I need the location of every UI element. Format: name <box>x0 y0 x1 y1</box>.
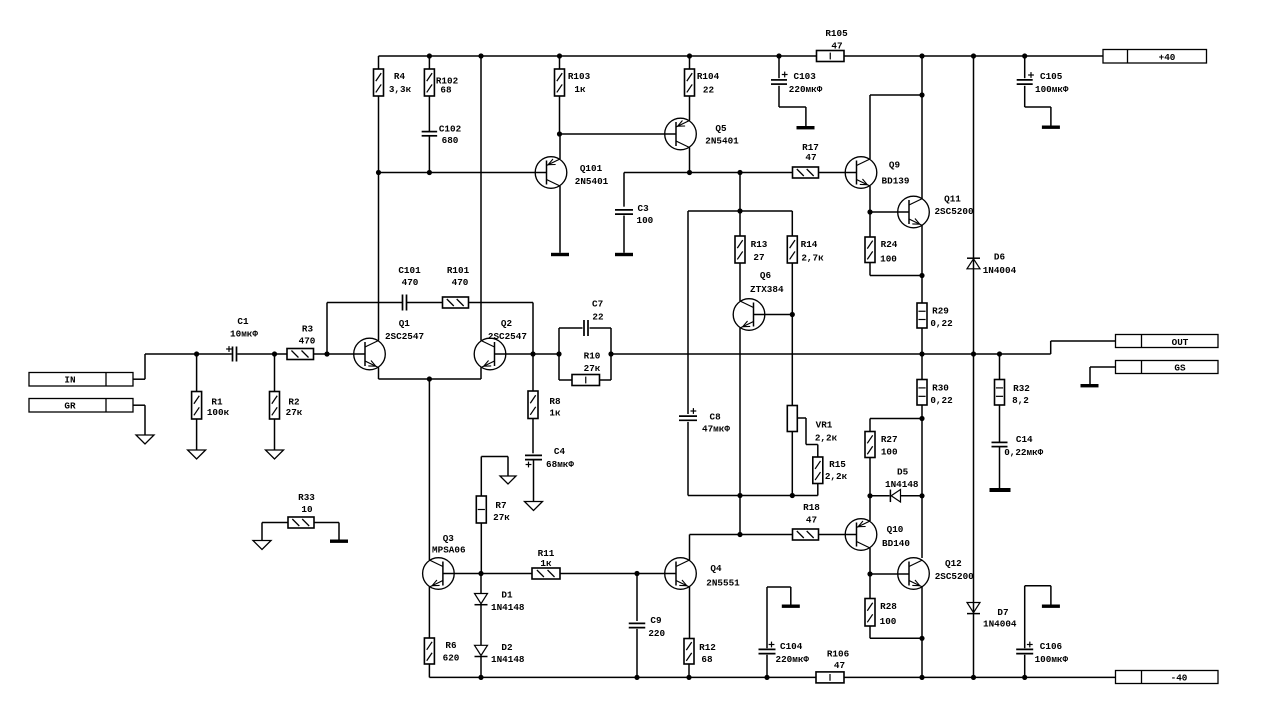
wire fb top right <box>590 327 612 329</box>
svg-text:C4: C4 <box>554 446 566 457</box>
wire Q2 base <box>495 353 534 355</box>
svg-text:C106: C106 <box>1040 641 1063 652</box>
svg-text:1к: 1к <box>540 558 552 569</box>
svg-text:R6: R6 <box>445 640 457 651</box>
wire Q1 collector <box>378 173 380 341</box>
capacitor C14 <box>992 434 1044 458</box>
wire C1 to R3 <box>237 353 287 355</box>
transistor Q9 <box>845 157 910 189</box>
wire D5 to Q12 collector <box>901 495 923 497</box>
svg-text:220мкФ: 220мкФ <box>789 84 823 95</box>
wire C105 to ground <box>1025 86 1051 126</box>
svg-text:2,2к: 2,2к <box>815 433 838 444</box>
node Q12 collector <box>919 493 924 498</box>
svg-text:68мкФ: 68мкФ <box>546 459 574 470</box>
diode D1 <box>475 574 525 614</box>
wire to Q5 base <box>560 133 677 135</box>
svg-text:Q2: Q2 <box>501 318 513 329</box>
wire R33 left <box>262 523 288 541</box>
node tail <box>427 376 432 381</box>
svg-text:27к: 27к <box>286 407 303 418</box>
node VAS-R13 <box>737 170 742 175</box>
wire bias left top <box>687 211 689 414</box>
svg-text:R24: R24 <box>881 239 898 250</box>
wire R32 to C14 <box>999 405 1001 442</box>
wire -40 rail left segment <box>429 676 816 678</box>
svg-text:100: 100 <box>881 446 898 457</box>
wire R28 jog <box>870 626 922 638</box>
svg-text:VR1: VR1 <box>816 420 833 431</box>
ground GR <box>136 435 154 444</box>
resistor R106 <box>816 649 850 683</box>
wire Q2 collector riser <box>480 56 482 341</box>
wire R1 to ground <box>196 419 198 450</box>
node Q1 base <box>324 351 329 356</box>
wire Q2 base to fb network <box>533 353 559 355</box>
wire base line to R11 <box>481 573 532 575</box>
wire Q12 emitter <box>921 587 923 677</box>
svg-text:BD139: BD139 <box>882 176 910 187</box>
svg-text:D7: D7 <box>997 607 1008 618</box>
svg-text:R2: R2 <box>288 397 300 408</box>
wire C104 ground jog <box>767 587 791 605</box>
svg-text:680: 680 <box>442 135 459 146</box>
resistor R103 <box>555 56 591 96</box>
wire D7 column <box>973 354 975 677</box>
wire C4 to ground <box>533 460 535 502</box>
ground C4 <box>525 502 543 511</box>
node Q12 rail <box>919 675 924 680</box>
wire Q5 collector <box>689 148 691 173</box>
resistor R32 <box>995 354 1031 406</box>
wire R7 jog <box>481 457 508 497</box>
svg-text:R7: R7 <box>495 500 506 511</box>
node Q12 base node <box>867 571 872 576</box>
node fb right <box>608 351 613 356</box>
resistor R8 <box>528 354 561 419</box>
capacitor C7 <box>584 299 604 337</box>
wire R103 down <box>559 96 561 134</box>
node Q2 base <box>530 351 535 356</box>
connector GR <box>29 399 133 413</box>
wire bias left bottom <box>687 422 689 496</box>
node rail-R102 <box>427 53 432 58</box>
wire IN to main line <box>133 354 145 379</box>
svg-text:C103: C103 <box>794 71 817 82</box>
capacitor C102 <box>422 124 462 147</box>
wire R15 bottom <box>817 484 819 496</box>
capacitor C103 <box>771 56 823 95</box>
wire Q4 collector <box>689 535 691 561</box>
wire Q9 collector <box>870 95 922 159</box>
node bias bottom Q6e <box>737 493 742 498</box>
wire Q4 emitter <box>689 587 691 639</box>
svg-text:470: 470 <box>299 336 316 347</box>
transistor Q101 <box>535 157 608 189</box>
svg-text:220: 220 <box>648 628 665 639</box>
wire R102 to C102 <box>428 96 430 131</box>
wire fb right vertical <box>610 328 612 380</box>
svg-text:R105: R105 <box>825 28 848 39</box>
wire +40 rail right segment <box>844 55 1103 57</box>
node C106 rail <box>1022 675 1027 680</box>
svg-text:27к: 27к <box>584 363 601 374</box>
svg-text:R33: R33 <box>298 492 315 503</box>
svg-text:0,22: 0,22 <box>930 318 953 329</box>
svg-text:620: 620 <box>443 653 460 664</box>
wire C102 down <box>428 136 430 172</box>
svg-text:1N4148: 1N4148 <box>491 602 525 613</box>
svg-text:R27: R27 <box>881 434 898 445</box>
svg-text:220мкФ: 220мкФ <box>776 654 810 665</box>
svg-text:0,22: 0,22 <box>930 395 953 406</box>
wire Q11 base <box>870 211 909 213</box>
wire R2 to ground <box>274 419 276 450</box>
svg-text:R3: R3 <box>302 324 314 335</box>
wire R18 to Q10 <box>819 534 857 536</box>
svg-text:C3: C3 <box>638 203 650 214</box>
resistor R29 <box>917 303 953 329</box>
svg-text:C8: C8 <box>710 412 722 423</box>
svg-text:Q12: Q12 <box>945 558 962 569</box>
resistor R11 <box>532 548 560 579</box>
svg-text:2SC2547: 2SC2547 <box>488 331 527 342</box>
svg-text:R30: R30 <box>932 383 949 394</box>
svg-text:R1: R1 <box>211 397 223 408</box>
svg-text:10мкФ: 10мкФ <box>230 329 258 340</box>
svg-text:Q5: Q5 <box>715 123 727 134</box>
wire OUT connector lead <box>1051 341 1116 354</box>
svg-text:100: 100 <box>637 215 654 226</box>
svg-text:47: 47 <box>834 660 845 671</box>
wire GS to ground <box>1090 367 1116 384</box>
wire VAS line <box>624 172 793 174</box>
node Q9 collector <box>919 92 924 97</box>
wire R33 right <box>314 523 339 540</box>
wire fb left vertical <box>558 328 560 380</box>
resistor R7 <box>476 496 510 523</box>
diode D2 <box>475 642 525 665</box>
wire D2 to rail <box>480 657 482 678</box>
svg-text:Q3: Q3 <box>443 533 455 544</box>
svg-text:-40: -40 <box>1171 673 1188 684</box>
svg-text:Q1: Q1 <box>399 318 411 329</box>
diode D5 <box>870 467 919 503</box>
connector OUT <box>1116 335 1219 349</box>
svg-text:27: 27 <box>753 252 764 263</box>
transistor Q6 <box>733 270 784 330</box>
svg-text:R14: R14 <box>801 239 818 250</box>
svg-text:R8: R8 <box>549 396 561 407</box>
svg-text:2N5401: 2N5401 <box>575 176 609 187</box>
wire C103 to ground <box>779 86 806 126</box>
node rail-R103 <box>557 53 562 58</box>
svg-text:22: 22 <box>592 312 604 323</box>
wire main line to C1 <box>145 353 232 355</box>
wire fb bottom right <box>600 379 612 381</box>
transistor Q12 <box>898 558 974 590</box>
node rail-D6 <box>971 53 976 58</box>
svg-text:D1: D1 <box>501 590 513 601</box>
svg-text:2SC2547: 2SC2547 <box>385 331 424 342</box>
wire R101 to Q2 base node <box>469 303 534 355</box>
wire D6 column <box>973 56 975 354</box>
svg-text:GS: GS <box>1174 363 1186 374</box>
svg-text:Q11: Q11 <box>944 194 961 205</box>
svg-text:100мкФ: 100мкФ <box>1035 84 1069 95</box>
transistor Q1 <box>354 318 424 370</box>
node OUT-R32 <box>997 351 1002 356</box>
ground Q101 <box>551 253 569 256</box>
wire to C101 <box>327 302 402 304</box>
wire R104 to Q5 emitter <box>689 96 691 121</box>
svg-text:68: 68 <box>701 654 713 665</box>
node fb left <box>556 351 561 356</box>
resistor R28 <box>865 574 897 627</box>
svg-text:47мкФ: 47мкФ <box>702 424 730 435</box>
wire Q11 collector riser <box>921 56 923 199</box>
ground C106 <box>1042 605 1060 608</box>
svg-text:C104: C104 <box>780 641 803 652</box>
wire D1-D2 <box>480 605 482 646</box>
svg-text:C101: C101 <box>398 265 421 276</box>
svg-text:C14: C14 <box>1016 434 1033 445</box>
ground GS <box>1081 384 1099 387</box>
wire R24 jog <box>870 263 922 276</box>
wire Q2 emitter <box>480 368 482 380</box>
node drive bottom <box>737 532 742 537</box>
resistor R1 <box>192 354 230 419</box>
wire Q1 emitter <box>378 368 380 380</box>
resistor R10 <box>572 351 601 386</box>
wire R4 to VAS line <box>378 96 380 173</box>
wire OUT line <box>611 353 1051 355</box>
wire R8 to C4 <box>532 419 534 454</box>
node C1-R2 <box>272 351 277 356</box>
svg-text:2SC5200: 2SC5200 <box>935 571 974 582</box>
svg-text:100мкФ: 100мкФ <box>1035 654 1069 665</box>
node D7 rail <box>971 675 976 680</box>
svg-text:100к: 100к <box>207 407 230 418</box>
capacitor C101 <box>398 265 421 311</box>
node OUT-R29 <box>919 351 924 356</box>
node D2 rail <box>478 675 483 680</box>
ground R7 <box>500 476 516 484</box>
wire R27 jog <box>870 419 922 432</box>
svg-text:100: 100 <box>880 254 897 265</box>
capacitor C1 <box>226 316 258 362</box>
diode D6 <box>967 252 1017 277</box>
wire Q4 collector line <box>690 534 793 536</box>
capacitor C104 <box>759 587 810 665</box>
svg-text:R104: R104 <box>697 71 720 82</box>
svg-text:2,2к: 2,2к <box>825 471 848 482</box>
svg-text:D5: D5 <box>897 467 909 478</box>
wire R14 node to VR1 <box>791 315 793 406</box>
capacitor C8 <box>679 408 730 434</box>
transistor Q10 <box>845 519 910 551</box>
wire GR to ground <box>133 405 145 435</box>
wire +40 rail left segment <box>379 55 817 57</box>
wire R6 to rail <box>428 664 430 677</box>
resistor R2 <box>270 354 303 419</box>
connector IN <box>29 373 133 387</box>
resistor R33 <box>288 492 315 528</box>
resistor R30 <box>917 380 953 407</box>
svg-text:1N4148: 1N4148 <box>885 479 919 490</box>
capacitor C9 <box>629 574 666 639</box>
svg-text:22: 22 <box>703 85 715 96</box>
node OUT-D6 <box>971 351 976 356</box>
node Q10 emitter <box>867 493 872 498</box>
ground R33 power <box>330 540 348 543</box>
ground C104 <box>782 605 800 608</box>
node bias bottom VR1 <box>790 493 795 498</box>
wire VR1 bottom <box>791 432 793 496</box>
connector GS <box>1116 361 1219 374</box>
svg-text:C1: C1 <box>237 316 249 327</box>
wire Q11 emitter <box>921 226 923 304</box>
wire bias top <box>688 210 792 212</box>
svg-text:Q9: Q9 <box>889 160 901 171</box>
svg-text:470: 470 <box>402 277 419 288</box>
transistor Q5 <box>665 118 739 150</box>
node Q5 collector <box>687 170 692 175</box>
wire R3 to Q1 base <box>314 353 366 355</box>
wire emitter tail <box>379 378 482 380</box>
ground R2 <box>266 450 284 459</box>
capacitor C3 <box>615 173 654 227</box>
wire Q10 emitter <box>869 496 871 521</box>
resistor R24 <box>865 212 898 265</box>
svg-text:2SC5200: 2SC5200 <box>934 206 973 217</box>
svg-text:47: 47 <box>831 41 842 52</box>
svg-text:R29: R29 <box>932 306 949 317</box>
svg-text:Q10: Q10 <box>887 524 904 535</box>
wire bias to drive <box>739 496 741 535</box>
svg-text:2,7к: 2,7к <box>801 253 824 264</box>
resistor R27 <box>865 432 898 458</box>
svg-text:R28: R28 <box>880 601 897 612</box>
wire Q3 base <box>443 573 481 575</box>
ground C103 <box>797 126 815 129</box>
wire R14 to Q6 base <box>791 263 793 315</box>
wire fb top left <box>559 327 583 329</box>
svg-text:68: 68 <box>440 85 452 96</box>
svg-text:D6: D6 <box>994 252 1006 263</box>
node C9 rail <box>634 675 639 680</box>
wire Q3 emitter <box>428 587 430 638</box>
wire C9 to rail <box>636 629 638 678</box>
node C102 bottom <box>427 170 432 175</box>
svg-text:BD140: BD140 <box>882 538 910 549</box>
ground R1 <box>188 450 206 459</box>
wire VR1 wiper <box>797 418 818 445</box>
svg-text:0,22мкФ: 0,22мкФ <box>1004 447 1043 458</box>
wire Q9 emitter <box>869 186 871 212</box>
ground C105 <box>1042 126 1060 129</box>
potentiometer VR1 <box>787 406 837 444</box>
wire bias bottom <box>688 495 818 497</box>
svg-text:100: 100 <box>880 616 897 627</box>
svg-text:Q6: Q6 <box>760 270 772 281</box>
svg-text:1к: 1к <box>574 84 586 95</box>
wire R29 to OUT <box>921 328 923 354</box>
transistor Q11 <box>898 194 974 228</box>
svg-text:10: 10 <box>301 504 313 515</box>
wire C101 to R101 <box>407 302 443 304</box>
svg-text:R101: R101 <box>447 265 470 276</box>
svg-text:Q101: Q101 <box>580 163 603 174</box>
wire Q10 collector <box>869 548 871 574</box>
node R30-R27 <box>919 416 924 421</box>
wire Q101 emitter <box>559 134 561 159</box>
svg-text:R15: R15 <box>829 459 846 470</box>
svg-text:2N5401: 2N5401 <box>705 136 739 147</box>
resistor R15 <box>813 445 848 484</box>
node rail-C103 <box>776 53 781 58</box>
svg-text:IN: IN <box>64 375 75 386</box>
resistor R4 <box>374 56 412 96</box>
node R4 bottom <box>376 170 381 175</box>
svg-text:R103: R103 <box>568 71 591 82</box>
node Q4 base <box>634 571 639 576</box>
wire C104 to rail <box>766 655 768 678</box>
wire Q12 base <box>870 573 909 575</box>
node Q12 emitter <box>919 636 924 641</box>
resistor R102 <box>424 56 458 96</box>
svg-text:47: 47 <box>805 152 816 163</box>
connector +40 <box>1103 50 1207 64</box>
node R12 rail <box>686 675 691 680</box>
wire Q6 base <box>754 314 793 316</box>
node Q3 base <box>478 571 483 576</box>
resistor R14 <box>787 211 824 264</box>
resistor R18 <box>793 502 821 540</box>
svg-text:R106: R106 <box>827 649 850 660</box>
capacitor C4 <box>525 446 574 470</box>
node C1-R1 <box>194 351 199 356</box>
svg-text:MPSA06: MPSA06 <box>432 545 466 556</box>
svg-text:2N5551: 2N5551 <box>706 578 740 589</box>
node rail-Q2col <box>478 53 483 58</box>
transistor Q2 <box>474 318 527 370</box>
wire bias top stub <box>739 173 741 212</box>
wire Q6 collector <box>739 263 741 301</box>
capacitor C106 <box>1016 586 1068 665</box>
wire R17 to Q9 <box>819 172 857 174</box>
wire Q12 collector riser <box>921 496 923 558</box>
svg-text:1N4004: 1N4004 <box>983 619 1017 630</box>
svg-text:Q4: Q4 <box>710 563 722 574</box>
svg-text:+40: +40 <box>1159 52 1176 63</box>
node Q11 base node <box>867 209 872 214</box>
svg-text:ZTX384: ZTX384 <box>750 284 784 295</box>
resistor R105 <box>817 28 849 62</box>
node rail-R104 <box>687 53 692 58</box>
wire R12 to rail <box>688 664 690 677</box>
svg-text:R10: R10 <box>584 351 601 362</box>
resistor R104 <box>685 56 720 96</box>
svg-text:C102: C102 <box>439 124 462 135</box>
svg-text:R4: R4 <box>394 71 406 82</box>
capacitor C105 <box>1017 56 1069 95</box>
svg-text:27к: 27к <box>493 512 510 523</box>
diode D7 <box>967 603 1017 630</box>
svg-text:C105: C105 <box>1040 71 1063 82</box>
node rail-Q11col <box>919 53 924 58</box>
resistor R101 <box>443 265 470 308</box>
